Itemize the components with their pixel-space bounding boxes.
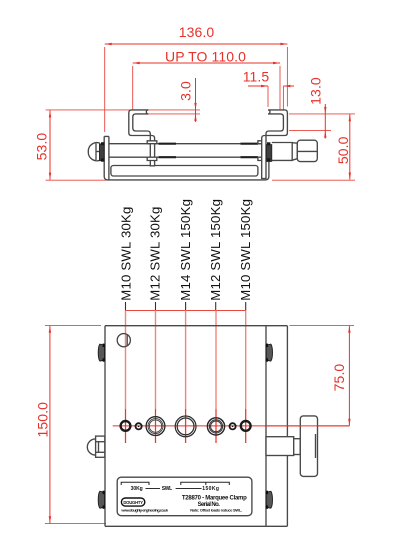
svg-text:DOUGHTY: DOUGHTY bbox=[123, 500, 143, 505]
hole M10 SWL 150Kg bbox=[241, 421, 251, 431]
threaded rod (side view) bbox=[109, 144, 262, 158]
dimension 75.0 bbox=[289, 325, 354, 425]
svg-text:50.0: 50.0 bbox=[335, 136, 351, 164]
svg-text:Note: Offset loads reduce SWL.: Note: Offset loads reduce SWL. bbox=[190, 507, 242, 512]
horizontal centerline through hole row bbox=[113, 425, 350, 427]
bolt holes row M10/M12/M14/M12/M10 bbox=[121, 416, 251, 437]
svg-text:M12 SWL 150Kg: M12 SWL 150Kg bbox=[208, 199, 223, 301]
svg-text:M10 SWL 150Kg: M10 SWL 150Kg bbox=[238, 199, 253, 301]
svg-text:150Kg: 150Kg bbox=[202, 486, 219, 492]
svg-text:M12 SWL 30Kg: M12 SWL 30Kg bbox=[148, 206, 163, 300]
svg-text:11.5: 11.5 bbox=[243, 69, 270, 85]
front body plate outline bbox=[105, 326, 287, 527]
svg-text:UP TO 110.0: UP TO 110.0 bbox=[165, 49, 246, 65]
dimension 11.5 bbox=[243, 69, 294, 111]
svg-text:M10 SWL 30Kg: M10 SWL 30Kg bbox=[119, 206, 134, 300]
threaded rod dark thread segments bbox=[159, 144, 258, 158]
dimension 136.0 bbox=[105, 24, 288, 132]
dimension 13.0 bbox=[289, 77, 355, 138]
dimension 50.0 bbox=[272, 114, 355, 180]
svg-text:SWL: SWL bbox=[162, 486, 172, 492]
svg-text:www.doughty-engineering.co.uk: www.doughty-engineering.co.uk bbox=[120, 508, 168, 513]
dimension 3.0 bbox=[148, 78, 200, 122]
right hanger hook bbox=[262, 110, 288, 179]
small rivet hole left bbox=[136, 423, 142, 429]
small rivet hole right bbox=[230, 423, 236, 429]
svg-text:53.0: 53.0 bbox=[34, 133, 50, 161]
svg-text:3.0: 3.0 bbox=[178, 81, 194, 101]
dimension 53.0 bbox=[34, 110, 132, 180]
rating label plate bbox=[117, 477, 252, 516]
hole M10 SWL 30Kg bbox=[121, 421, 131, 431]
left hook clamp washers bbox=[147, 141, 157, 161]
dimension 150.0 bbox=[35, 325, 106, 523]
svg-text:T28870 - Marquee Clamp: T28870 - Marquee Clamp bbox=[182, 495, 247, 501]
right hook clamp washers bbox=[258, 141, 263, 161]
left hanger hook bbox=[129, 110, 155, 166]
left domed end nut (front view) bbox=[87, 436, 105, 457]
label leader ticks bbox=[126, 302, 246, 311]
clamp body channel: end plate, tray bottom, right wall bbox=[104, 136, 269, 180]
svg-text:136.0: 136.0 bbox=[179, 24, 215, 40]
svg-text:M14 SWL 150Kg: M14 SWL 150Kg bbox=[178, 199, 193, 301]
svg-text:30Kg: 30Kg bbox=[131, 486, 143, 492]
svg-text:75.0: 75.0 bbox=[331, 364, 347, 392]
channel inner slot bbox=[111, 166, 258, 177]
hole M12 SWL 150Kg bbox=[207, 418, 224, 435]
top-left hanging hole bbox=[117, 334, 130, 347]
right bushing, cylinder and hand knob (side view) bbox=[267, 140, 318, 162]
edge rivet tabs bbox=[98, 344, 272, 509]
right hand knob (front view) bbox=[266, 416, 349, 477]
svg-text:13.0: 13.0 bbox=[308, 77, 324, 105]
red leader connector line and hole centerlines bbox=[126, 310, 246, 312]
svg-text:150.0: 150.0 bbox=[35, 402, 51, 438]
dimension UP TO 110.0 bbox=[133, 49, 280, 110]
left domed end nut bbox=[88, 142, 104, 162]
hole M12 SWL 30Kg bbox=[146, 417, 165, 436]
hole M14 SWL 150Kg bbox=[175, 416, 196, 437]
